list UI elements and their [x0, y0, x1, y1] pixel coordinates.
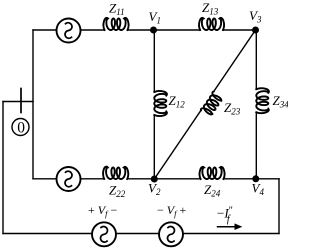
svg-text:Z13: Z13 [202, 0, 219, 17]
wire source to Z22 [81, 178, 105, 180]
wire Z34 down to V4 [255, 112, 257, 179]
ac source top-left [57, 19, 81, 43]
svg-text:Z12: Z12 [169, 93, 186, 110]
svg-text:Z24: Z24 [204, 182, 221, 199]
svg-text:0: 0 [17, 120, 25, 137]
ac source Vf left [92, 222, 116, 246]
svg-text:−I″f: −I″f [217, 206, 233, 226]
wire source to Z11 [81, 29, 105, 31]
wire Z22 to Z24 through V2 [127, 178, 200, 180]
current arrow -If'' [218, 226, 237, 228]
svg-text:Z23: Z23 [224, 100, 241, 117]
node 0 circle [12, 119, 29, 136]
inductor Z11 [104, 18, 129, 30]
node V3 [252, 27, 259, 34]
wire diagonal V2 to Z23 [154, 110, 201, 179]
wire right vertical [278, 179, 280, 234]
svg-text:+ Vf −: + Vf − [88, 203, 118, 218]
inductor Z12 [154, 91, 167, 116]
svg-text:V1: V1 [149, 9, 161, 26]
svg-text:− Vf +: − Vf + [157, 203, 187, 218]
inductor Z13 [199, 18, 224, 30]
wire fault stub [3, 101, 33, 103]
wire V3 down to Z34 [255, 30, 257, 89]
wire bus2: corner to source [33, 178, 57, 180]
svg-text:V2: V2 [148, 181, 161, 198]
node V1 [150, 27, 157, 34]
wire outer left vertical [2, 102, 4, 234]
wire Z13 to V3 [223, 29, 256, 31]
inductor Z24 [200, 167, 225, 179]
node V2 [151, 176, 158, 183]
svg-text:V3: V3 [249, 8, 262, 25]
ac source mid-left [57, 167, 81, 191]
node V4 [252, 175, 259, 182]
wire between bottom sources [116, 233, 159, 235]
fault tick [20, 89, 22, 113]
wire left vertical [32, 30, 34, 179]
wire V1 down to Z12 [153, 30, 155, 92]
wire Z11 to Z13 through V1 [128, 29, 201, 31]
inductor Z34 [256, 88, 269, 113]
inductor Z22 [103, 167, 128, 179]
wire bottom bus right segment [183, 233, 279, 235]
svg-text:Z34: Z34 [273, 93, 289, 110]
inductor Z23 [201, 92, 222, 115]
wire bottom bus left segment [3, 233, 92, 235]
wire Z12 down to V2 [153, 115, 155, 179]
wire bus2 V4 to right corner [223, 178, 279, 180]
wire Z23 to V3 [214, 30, 256, 92]
svg-text:Z11: Z11 [109, 1, 125, 18]
svg-text:V4: V4 [252, 181, 265, 198]
svg-text:Z22: Z22 [109, 183, 126, 200]
ac source Vf right [159, 222, 183, 246]
wire top bus: corner to source [33, 29, 57, 31]
